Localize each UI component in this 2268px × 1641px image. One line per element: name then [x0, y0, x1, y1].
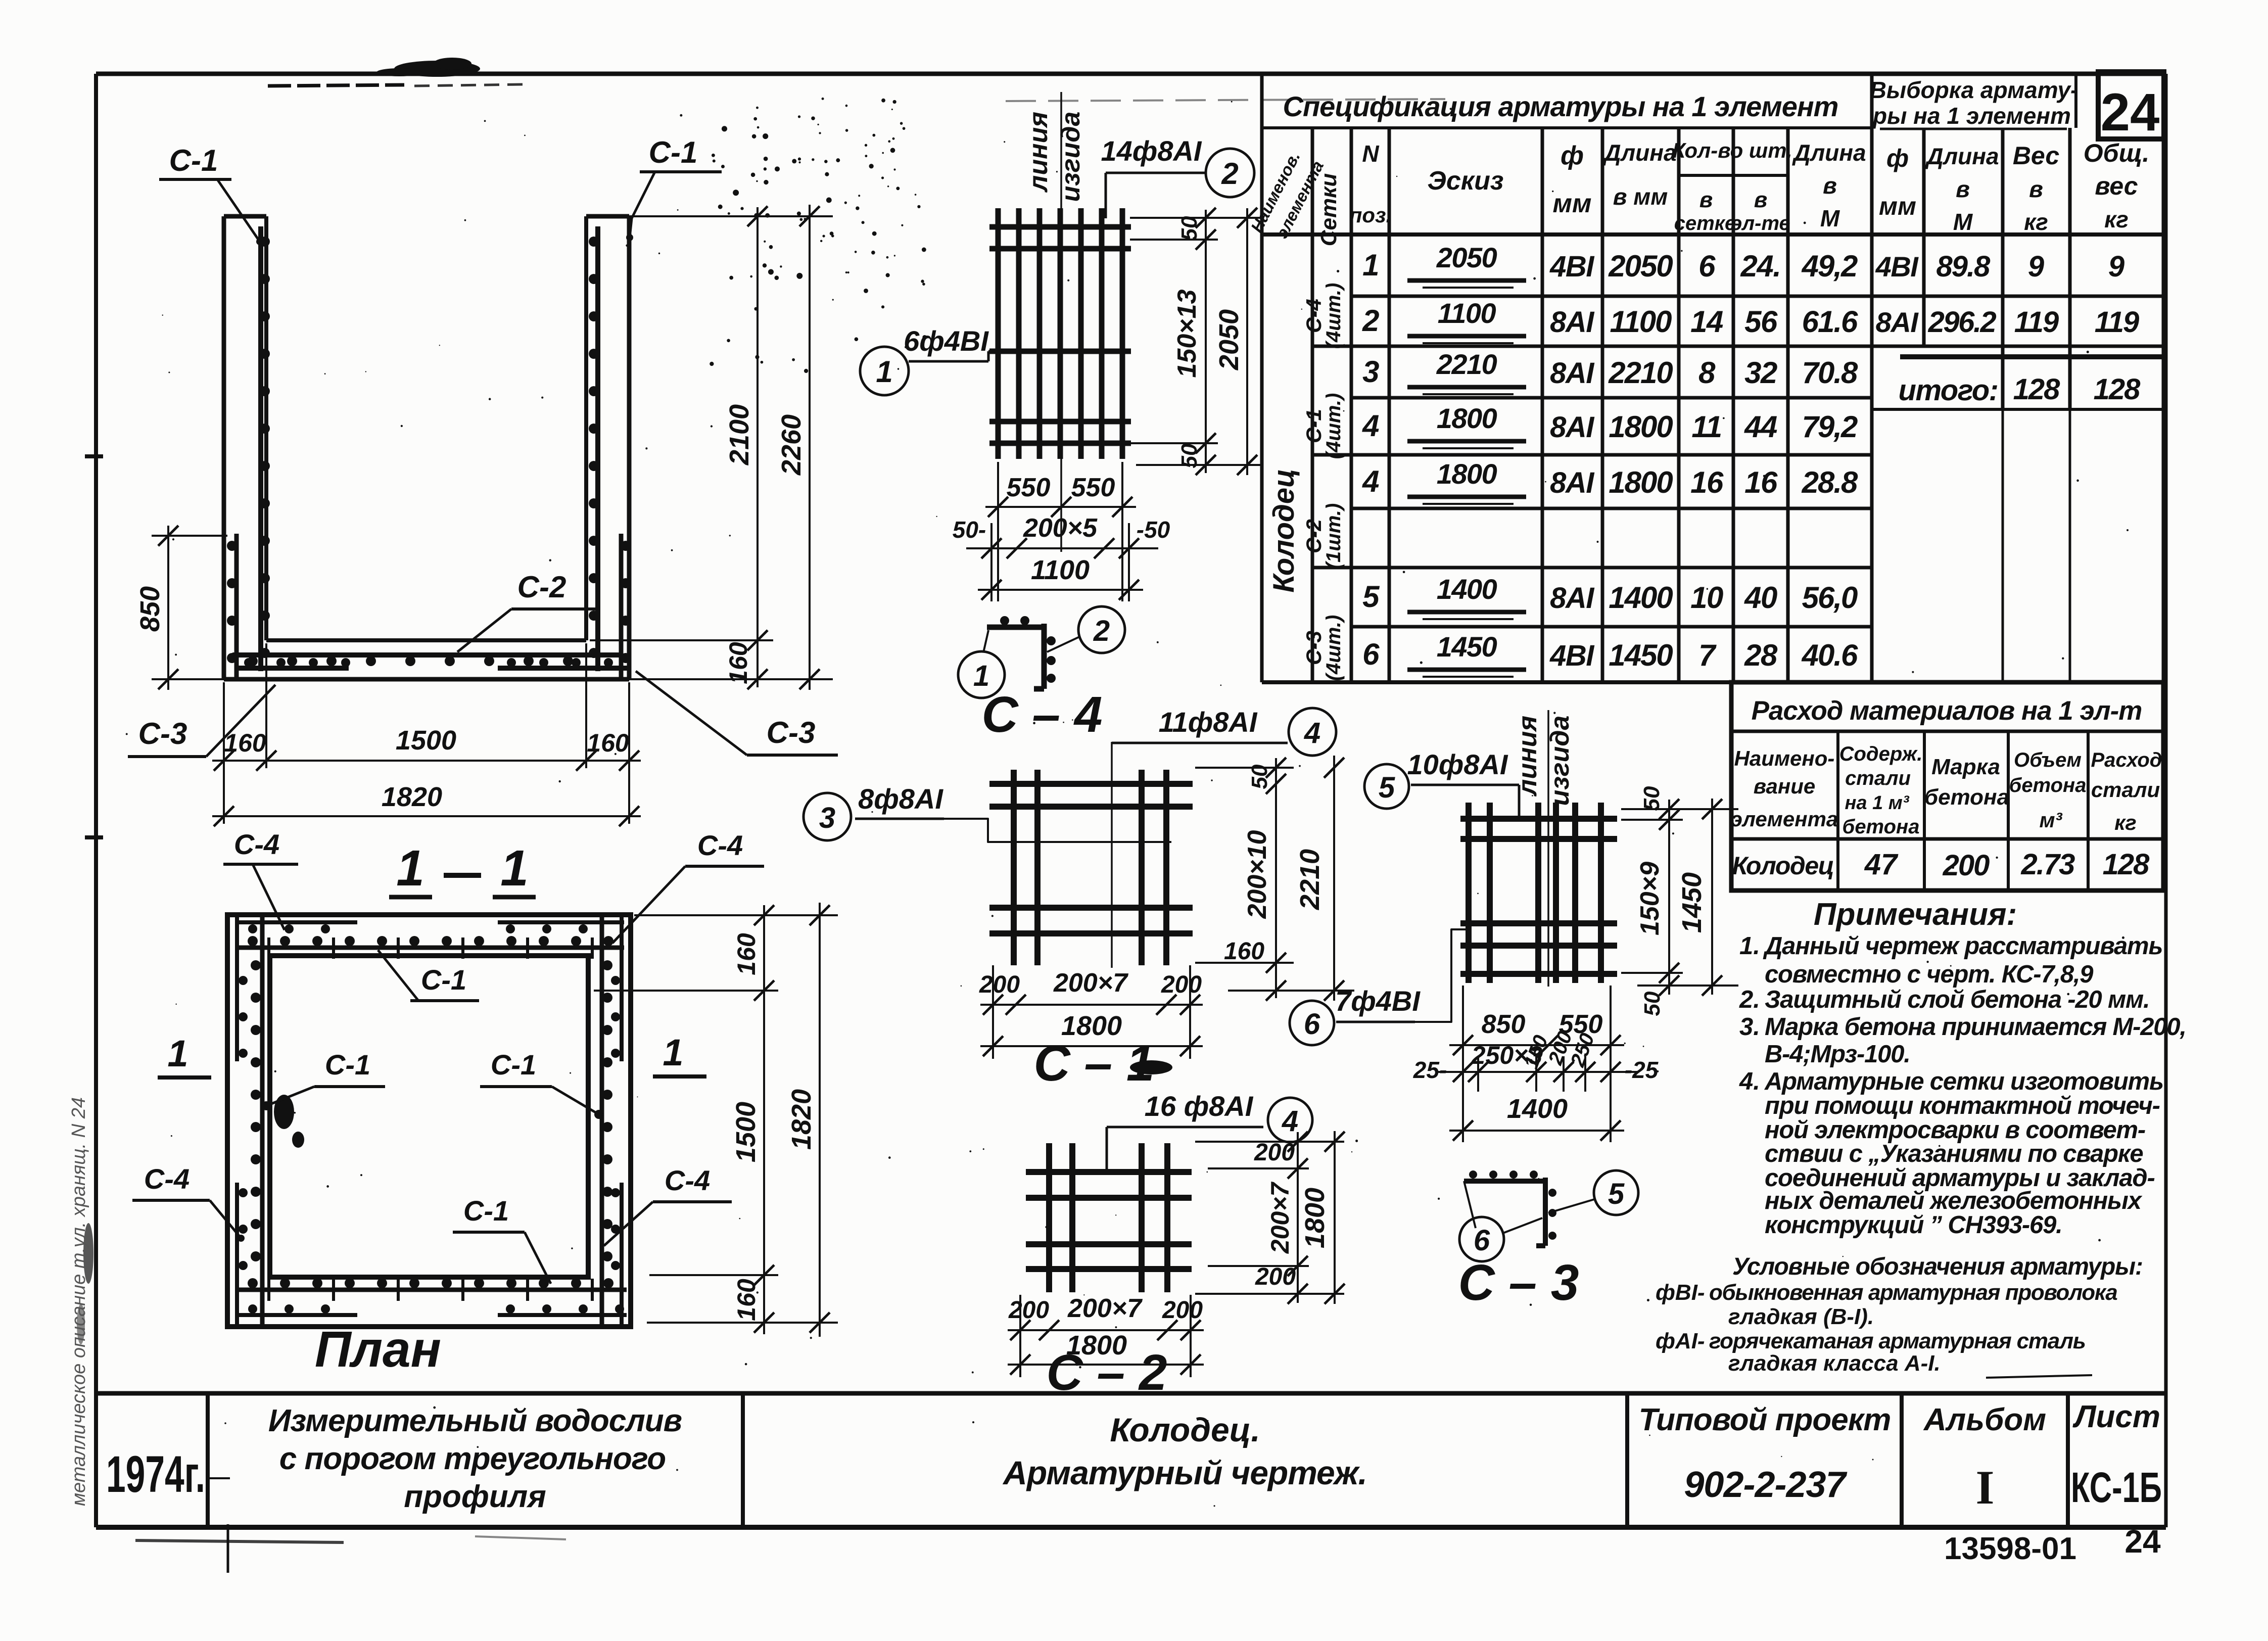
svg-text:2: 2: [1221, 157, 1238, 191]
svg-text:План: План: [315, 1321, 441, 1378]
svg-text:с порогом треугольного: с порогом треугольного: [279, 1441, 666, 1476]
spec header dlina v mm: [1602, 139, 1676, 210]
vyborka row 4BI: [1875, 250, 2124, 283]
raskhod data row: [1732, 848, 2150, 882]
svg-text:44: 44: [1744, 410, 1777, 444]
svg-text:2050: 2050: [1214, 309, 1244, 370]
spec header rotated name of element: [1247, 149, 1327, 242]
svg-text:1: 1: [500, 840, 529, 897]
mesh sketch C-3 grid of bars: [1460, 803, 1617, 983]
svg-text:Лист: Лист: [2072, 1399, 2160, 1434]
svg-text:200: 200: [1161, 971, 1202, 998]
svg-text:8АI: 8АI: [1550, 582, 1595, 615]
section view floor mesh C-2 with weld dots: [232, 655, 621, 666]
svg-text:1: 1: [1362, 248, 1379, 282]
svg-text:2050: 2050: [1608, 249, 1673, 283]
title block album: [1923, 1402, 2046, 1514]
section view 1-1 concrete outline: [224, 216, 629, 679]
svg-text:Вес: Вес: [2013, 142, 2060, 170]
svg-text:28.8: 28.8: [1802, 465, 1858, 499]
C-3 bottom overall dimension 1400: [1449, 1094, 1624, 1141]
leader 8f8AI with position circle 3: [804, 783, 1171, 842]
svg-text:С-2: С-2: [517, 570, 566, 604]
svg-text:в: в: [1754, 187, 1768, 212]
leader 14f8AI with position circle 2: [1101, 135, 1254, 218]
section dimension 2260 right side: [776, 205, 820, 690]
svg-text:Условные обозначения арматуры:: Условные обозначения арматуры:: [1732, 1253, 2143, 1280]
svg-text:С-1: С-1: [491, 1049, 536, 1081]
svg-text:119: 119: [2014, 306, 2059, 339]
svg-text:160: 160: [724, 642, 752, 684]
spec header f mm: [1553, 141, 1592, 218]
section bottom overall dimension 1820: [212, 782, 641, 826]
svg-text:(4шт.): (4шт.): [1322, 283, 1345, 349]
svg-text:бетона: бетона: [2009, 774, 2087, 796]
C-3 bent cross-section detail with weld dots: [1464, 1170, 1556, 1246]
svg-text:160: 160: [732, 1279, 761, 1321]
svg-text:10: 10: [1690, 581, 1723, 615]
svg-text:200×7: 200×7: [1067, 1294, 1143, 1323]
section bottom dimensions 160 1500 160: [212, 643, 641, 824]
svg-text:2.73: 2.73: [2021, 848, 2075, 881]
section view corner mesh C-4 left: [227, 534, 237, 679]
svg-text:1400: 1400: [1437, 573, 1497, 605]
svg-text:кг: кг: [2114, 811, 2137, 834]
view title 1 - 1: [389, 840, 536, 897]
svg-text:2: 2: [1093, 615, 1110, 647]
svg-text:6: 6: [1698, 249, 1716, 283]
svg-text:1800: 1800: [1437, 402, 1497, 434]
mesh sketch C-3 bend line caption: [1513, 716, 1575, 806]
C-1 right dimensions 50 200x10 160: [1195, 758, 1354, 1001]
svg-text:11ф8АI: 11ф8АI: [1159, 706, 1258, 738]
svg-text:6ф4ВI: 6ф4ВI: [904, 325, 989, 357]
svg-text:296.2: 296.2: [1928, 306, 1997, 339]
plan label C-4 bottom-right: [604, 1164, 732, 1246]
mesh sketch C-4 bend line caption: [1024, 112, 1085, 202]
svg-text:16: 16: [1744, 465, 1778, 499]
svg-text:N: N: [1362, 140, 1379, 167]
svg-text:56: 56: [1744, 305, 1778, 339]
plan section cut mark 1 right: [653, 1032, 706, 1076]
svg-text:1820: 1820: [382, 782, 442, 812]
svg-text:902-2-237: 902-2-237: [1684, 1465, 1847, 1505]
svg-text:стали: стали: [1845, 767, 1911, 789]
svg-text:гладкая (В-I).: гладкая (В-I).: [1728, 1304, 1874, 1329]
svg-text:Выборка армату-: Выборка армату-: [1870, 77, 2078, 103]
raskhod table grid: [1731, 682, 2163, 890]
svg-text:Расход: Расход: [2091, 749, 2162, 771]
svg-text:1800: 1800: [1609, 465, 1673, 499]
vyborka itogo row: [1899, 373, 2141, 407]
C-4 bottom dimensions 550 550: [985, 462, 1136, 601]
svg-text:в: в: [2029, 176, 2043, 202]
C-3 bottom dimensions 850 550: [1449, 986, 1624, 1142]
svg-text:Марка бетона принимается М-200: Марка бетона принимается М-200,: [1765, 1013, 2186, 1041]
C-3 detail circle 5: [1548, 1170, 1638, 1215]
svg-text:50: 50: [1177, 216, 1202, 241]
svg-text:-50: -50: [1137, 517, 1170, 543]
svg-text:32: 32: [1744, 356, 1777, 390]
spec group label C-1 4sht: [1302, 393, 1345, 459]
svg-text:С-4: С-4: [234, 828, 279, 860]
svg-text:профиля: профиля: [404, 1479, 546, 1514]
leader 7f4BI with position circle 6: [1290, 929, 1470, 1045]
sheet number box 24: [2098, 72, 2164, 142]
section view bottom mesh C-3 left: [234, 658, 350, 668]
section dimension 850 left side: [135, 526, 227, 690]
svg-text:24.: 24.: [1740, 249, 1781, 283]
svg-text:С-4: С-4: [1302, 299, 1326, 333]
svg-text:С-1: С-1: [169, 144, 218, 177]
svg-text:200: 200: [1255, 1263, 1296, 1290]
svg-text:С-1: С-1: [421, 964, 466, 996]
svg-text:24: 24: [2101, 83, 2160, 142]
svg-text:200×5: 200×5: [1023, 513, 1098, 543]
C-4 detail circle 2: [1047, 606, 1125, 653]
C-1 bottom dimensions 200 200x7 200: [979, 965, 1203, 1059]
svg-text:1100: 1100: [1438, 297, 1496, 329]
C-4 bent cross-section detail with weld dots: [983, 616, 1056, 689]
svg-text:(4шт.): (4шт.): [1322, 615, 1345, 681]
svg-text:Кол-во шт.: Кол-во шт.: [1672, 138, 1792, 162]
svg-text:9: 9: [2028, 250, 2044, 283]
svg-text:40: 40: [1744, 581, 1777, 615]
label C-3 bottom-left: [128, 685, 275, 757]
svg-text:6: 6: [1474, 1224, 1490, 1257]
label C-1 top-left of section: [159, 144, 263, 245]
svg-text:С – 1: С – 1: [1033, 1035, 1154, 1092]
svg-text:128: 128: [2094, 373, 2141, 406]
svg-text:I: I: [1976, 1461, 1995, 1514]
spec row poz 6: [1362, 631, 1858, 677]
svg-text:8АI: 8АI: [1550, 306, 1595, 339]
vyborka table title box: [1870, 74, 2078, 129]
leader 16f8AI with position circle 4: [1107, 1090, 1312, 1174]
svg-text:вес: вес: [2095, 172, 2138, 200]
svg-text:конструкций ” СН393-69.: конструкций ” СН393-69.: [1765, 1211, 2062, 1239]
svg-text:1: 1: [167, 1033, 188, 1074]
svg-text:4ВI: 4ВI: [1549, 250, 1595, 283]
svg-text:Колодец: Колодец: [1732, 852, 1834, 880]
C-4 right dimensions 50 150x13 2050 50: [1130, 208, 1263, 475]
svg-text:850: 850: [1482, 1010, 1526, 1039]
svg-text:2100: 2100: [724, 404, 754, 465]
svg-text:1100: 1100: [1610, 305, 1672, 339]
svg-text:С – 3: С – 3: [1458, 1254, 1579, 1311]
svg-text:сетке: сетке: [1674, 212, 1736, 235]
svg-text:Длина: Длина: [1924, 143, 1999, 169]
spec header kol-vo sht: [1672, 138, 1792, 235]
svg-text:эл-те: эл-те: [1731, 212, 1790, 235]
svg-text:ф: ф: [1886, 144, 1909, 172]
svg-text:кг: кг: [2104, 206, 2129, 232]
svg-text:2260: 2260: [776, 414, 807, 476]
svg-text:Длина: Длина: [1791, 139, 1866, 166]
svg-text:1100: 1100: [1031, 555, 1090, 585]
label C-1 top-right of section: [626, 135, 722, 241]
svg-text:89.8: 89.8: [1936, 250, 1991, 283]
spec row poz 4: [1362, 458, 1858, 504]
svg-text:Альбом: Альбом: [1923, 1402, 2046, 1437]
archive number under title block: [1944, 1523, 2161, 1566]
spec group label C-2 1sht: [1302, 503, 1345, 570]
svg-text:1: 1: [876, 355, 892, 389]
svg-text:850: 850: [135, 586, 165, 632]
svg-text:С – 4: С – 4: [981, 686, 1102, 743]
svg-text:Примечания:: Примечания:: [1814, 897, 2017, 932]
svg-text:9: 9: [2108, 250, 2124, 283]
svg-text:1500: 1500: [731, 1102, 761, 1162]
svg-text:С-4: С-4: [665, 1164, 710, 1196]
svg-text:Арматурный чертеж.: Арматурный чертеж.: [1002, 1454, 1367, 1491]
svg-text:Данный чертеж рассматривать: Данный чертеж рассматривать: [1763, 932, 2162, 960]
svg-text:16 ф8АI: 16 ф8АI: [1145, 1090, 1254, 1122]
plan view outer square: [227, 915, 631, 1327]
svg-text:79,2: 79,2: [1802, 410, 1858, 444]
svg-text:Общ.: Общ.: [2084, 139, 2150, 167]
plan label C-4 top-left: [223, 828, 298, 930]
svg-text:70.8: 70.8: [1802, 356, 1858, 390]
svg-text:Длина: Длина: [1602, 139, 1676, 166]
svg-text:поз.: поз.: [1349, 203, 1392, 227]
spec header N poz: [1349, 140, 1392, 227]
spec header dlina v M: [1791, 139, 1866, 231]
svg-text:10ф8АI: 10ф8АI: [1407, 748, 1508, 780]
svg-text:50: 50: [1247, 764, 1272, 789]
svg-text:мм: мм: [1553, 189, 1592, 218]
svg-text:С-3: С-3: [138, 717, 187, 751]
svg-text:8ф8АI: 8ф8АI: [858, 783, 943, 815]
svg-text:на 1 м³: на 1 м³: [1845, 792, 1909, 814]
leader 10f8AI with position circle 5: [1364, 748, 1519, 820]
mesh sketch C-1 grid of bars: [989, 770, 1193, 965]
label C-3 bottom-right: [636, 671, 838, 755]
svg-text:изгида: изгида: [1056, 112, 1085, 202]
svg-text:Расход материалов на 1 эл-т: Расход материалов на 1 эл-т: [1752, 696, 2142, 726]
spec group label C-3 4sht: [1302, 615, 1345, 681]
svg-text:С-1: С-1: [463, 1195, 509, 1227]
svg-text:изгида: изгида: [1545, 716, 1575, 806]
section view wall mesh C-1 right with weld dots: [589, 226, 599, 671]
svg-text:4: 4: [1304, 717, 1320, 749]
svg-text:8АI: 8АI: [1550, 466, 1595, 499]
svg-text:150×9: 150×9: [1635, 862, 1665, 935]
svg-text:128: 128: [2103, 848, 2150, 881]
svg-text:Наимено-: Наимено-: [1734, 746, 1835, 770]
svg-text:фАI-: фАI-: [1656, 1329, 1705, 1353]
svg-text:5: 5: [1379, 771, 1395, 804]
mesh sketch C-4 grid of bars: [989, 208, 1131, 459]
svg-text:4.: 4.: [1739, 1068, 1760, 1095]
svg-text:Колодец: Колодец: [1267, 468, 1300, 592]
svg-text:200: 200: [979, 971, 1020, 998]
notes text: [1739, 932, 2186, 1239]
svg-text:200: 200: [1943, 849, 1990, 882]
plan mesh C-1 bottom wall with dots: [236, 1278, 627, 1301]
C-2 bottom dimensions 200 200x7 200: [1008, 1294, 1204, 1377]
svg-text:Спецификация арматуры на 1 эле: Спецификация арматуры на 1 элемент: [1283, 90, 1838, 122]
svg-text:Сетки: Сетки: [1316, 173, 1341, 247]
svg-text:Содерж.: Содерж.: [1839, 743, 1923, 765]
svg-text:-25: -25: [1625, 1057, 1659, 1083]
svg-text:200: 200: [1008, 1297, 1049, 1324]
svg-text:С-3: С-3: [1302, 631, 1326, 665]
section view bottom mesh C-3 right: [498, 658, 629, 668]
svg-text:1800: 1800: [1300, 1188, 1330, 1248]
plan corner mesh C-4 top-left legs: [236, 916, 357, 1061]
svg-text:550: 550: [1007, 473, 1051, 502]
title block sheet name: [1002, 1411, 1367, 1491]
svg-text:4ВI: 4ВI: [1549, 639, 1595, 672]
svg-text:1.: 1.: [1739, 932, 1760, 960]
svg-text:8АI: 8АI: [1550, 411, 1595, 444]
svg-text:1800: 1800: [1437, 458, 1497, 490]
svg-text:200: 200: [1162, 1297, 1203, 1324]
svg-text:в: в: [1823, 172, 1837, 199]
C-2 right overall dimension 1800: [1300, 1131, 1345, 1304]
plan label C-1 right middle: [480, 1049, 603, 1119]
svg-text:Марка: Марка: [1931, 755, 2000, 779]
specification table grid: [1262, 74, 2163, 682]
plan mesh C-1 top wall with dots: [236, 936, 624, 959]
leader 6f4BI with position circle 1: [860, 325, 1000, 395]
svg-text:50: 50: [1640, 991, 1665, 1016]
plan corner mesh C-4 bottom-left legs: [236, 1183, 357, 1325]
svg-text:550: 550: [1071, 473, 1115, 502]
spec row poz 4: [1362, 402, 1858, 448]
svg-text:160: 160: [1224, 938, 1264, 965]
svg-text:2: 2: [1362, 304, 1379, 338]
svg-text:ствии с „Указаниями по сварке: ствии с „Указаниями по сварке: [1765, 1140, 2143, 1167]
C-3 bottom dimensions 25 250x3 150 200 250 25: [1413, 1028, 1659, 1092]
svg-text:1450: 1450: [1677, 872, 1707, 933]
C-4 bottom overall dimension 1100: [978, 555, 1143, 600]
svg-text:совместно с черт. КС-7,8,9: совместно с черт. КС-7,8,9: [1765, 961, 2094, 988]
svg-text:150×13: 150×13: [1172, 289, 1202, 378]
svg-text:при помощи контактной точеч-: при помощи контактной точеч-: [1765, 1092, 2160, 1119]
svg-text:1800: 1800: [1609, 410, 1673, 444]
svg-text:Объем: Объем: [2014, 749, 2082, 771]
raskhod header: [1731, 743, 2162, 838]
svg-text:гладкая класса А-I.: гладкая класса А-I.: [1728, 1351, 1941, 1376]
svg-text:мм: мм: [1879, 192, 1916, 220]
svg-text:8: 8: [1698, 356, 1716, 390]
leader 11f8AI with position circle 4: [1112, 706, 1336, 756]
svg-text:7ф4ВI: 7ф4ВI: [1335, 985, 1421, 1017]
svg-text:обыкновенная арматурная провол: обыкновенная арматурная проволока: [1709, 1280, 2117, 1305]
svg-text:бетона: бетона: [1924, 785, 2009, 810]
svg-text:200: 200: [1254, 1139, 1295, 1166]
C-4 detail circle 1: [958, 651, 1005, 698]
scan smudges and noise: [77, 58, 2129, 1507]
svg-text:50: 50: [1177, 443, 1202, 468]
section view wall mesh C-1 left with weld dots: [260, 226, 270, 671]
C-3 right overall dimension 1450: [1677, 799, 1722, 996]
mesh sketch C-4 bend line: [1060, 92, 1062, 552]
svg-text:м³: м³: [2039, 808, 2062, 832]
svg-text:24: 24: [2124, 1523, 2161, 1560]
svg-text:13598-01: 13598-01: [1944, 1531, 2076, 1566]
svg-text:1974г.: 1974г.: [106, 1445, 205, 1503]
vyborka row 8AI: [1876, 306, 2139, 339]
C-3 right dimensions 50 150x9 50: [1621, 786, 1738, 1016]
svg-text:61.6: 61.6: [1802, 305, 1858, 339]
svg-text:1820: 1820: [786, 1089, 817, 1150]
mesh sketch C-2 grid of bars: [1026, 1143, 1192, 1292]
spec row poz 2: [1362, 297, 1858, 343]
title block frame: [96, 1393, 2166, 1527]
svg-text:11: 11: [1691, 410, 1721, 444]
svg-text:С-2: С-2: [1302, 519, 1326, 553]
svg-text:119: 119: [2095, 306, 2139, 339]
svg-text:1: 1: [663, 1032, 683, 1073]
legend text: [1656, 1280, 2117, 1378]
C-1 right overall dimension 2210: [1295, 756, 1344, 1001]
spec row poz 1: [1362, 242, 1858, 288]
svg-text:5: 5: [1362, 580, 1380, 614]
plan right overall dimension 1820: [786, 903, 830, 1337]
plan section cut mark 1 left: [158, 1033, 211, 1077]
svg-text:1: 1: [396, 840, 424, 897]
vyborka table grid: [1872, 74, 2163, 682]
plan view inner square: [270, 956, 588, 1277]
svg-text:28: 28: [1744, 638, 1778, 672]
svg-text:14: 14: [1690, 305, 1723, 339]
svg-text:2.: 2.: [1739, 986, 1760, 1013]
svg-text:4: 4: [1362, 409, 1379, 443]
svg-text:вание: вание: [1754, 774, 1816, 798]
svg-text:Арматурные сетки изготовить: Арматурные сетки изготовить: [1764, 1068, 2163, 1095]
spec group label C-4 4sht: [1302, 283, 1345, 349]
svg-text:128: 128: [2013, 373, 2061, 406]
section view corner mesh C-4 right: [621, 534, 631, 679]
svg-text:М: М: [1953, 209, 1973, 235]
svg-text:С-1: С-1: [649, 135, 698, 169]
svg-text:8АI: 8АI: [1876, 306, 1919, 338]
label C-2 on floor mesh: [457, 570, 600, 652]
svg-text:(4шт.): (4шт.): [1322, 393, 1345, 459]
svg-text:160: 160: [224, 729, 266, 757]
svg-text:1400: 1400: [1609, 581, 1673, 615]
svg-text:1450: 1450: [1437, 631, 1497, 663]
stray marks below title block: [135, 1524, 566, 1573]
svg-text:160: 160: [732, 933, 761, 975]
svg-text:2210: 2210: [1295, 849, 1325, 910]
C-2 bottom overall dimension 1800: [1008, 1330, 1204, 1375]
svg-text:2050: 2050: [1436, 242, 1497, 273]
svg-text:7: 7: [1698, 638, 1717, 672]
svg-text:49,2: 49,2: [1802, 249, 1858, 283]
mesh sketch C-3 bend line: [1547, 710, 1549, 987]
svg-text:50: 50: [1639, 786, 1664, 811]
svg-text:ры на 1 элемент: ры на 1 элемент: [1872, 103, 2071, 129]
svg-text:в: в: [1956, 176, 1970, 202]
svg-text:Типовой проект: Типовой проект: [1639, 1402, 1891, 1437]
svg-text:5: 5: [1608, 1178, 1625, 1210]
svg-text:Измерительный водослив: Измерительный водослив: [268, 1403, 682, 1438]
svg-text:ф: ф: [1561, 141, 1584, 170]
svg-text:КС-1Б: КС-1Б: [2071, 1464, 2162, 1511]
svg-text:М: М: [1820, 205, 1840, 231]
svg-text:16: 16: [1690, 465, 1724, 499]
svg-text:50-: 50-: [953, 517, 986, 543]
svg-text:ных деталей железобетонных: ных деталей железобетонных: [1765, 1187, 2143, 1214]
svg-text:С-4: С-4: [697, 829, 743, 861]
svg-text:в мм: в мм: [1613, 183, 1668, 210]
svg-text:3: 3: [1362, 355, 1379, 389]
svg-text:бетона: бетона: [1842, 816, 1920, 838]
